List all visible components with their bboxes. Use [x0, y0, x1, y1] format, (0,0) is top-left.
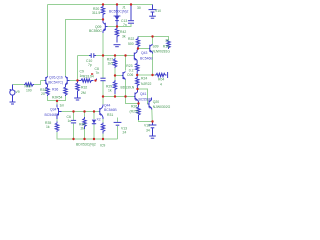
svg-text:R36: R36	[52, 88, 58, 92]
svg-text:1m: 1m	[60, 104, 65, 108]
svg-text:C9: C9	[80, 70, 84, 74]
svg-text:(R25): (R25)	[130, 110, 138, 114]
svg-text:Q44: Q44	[104, 104, 111, 108]
svg-text:NJW0281G: NJW0281G	[153, 50, 171, 54]
svg-text:7p: 7p	[88, 63, 92, 67]
svg-text:R33: R33	[83, 75, 89, 79]
svg-text:R23: R23	[126, 64, 132, 68]
svg-text:Q26,Q16: Q26,Q16	[49, 76, 63, 80]
svg-text:IC9: IC9	[100, 144, 105, 148]
svg-text:R04: R04	[158, 78, 164, 82]
svg-text:94: 94	[90, 75, 94, 79]
svg-text:311.5: 311.5	[92, 11, 100, 15]
svg-text:34: 34	[146, 129, 150, 133]
svg-text:R24: R24	[141, 77, 147, 81]
svg-text:V16: V16	[144, 124, 150, 128]
svg-text:BD139,N: BD139,N	[121, 86, 135, 90]
svg-text:100: 100	[26, 89, 32, 93]
svg-text:BC550C(N)2: BC550C(N)2	[109, 10, 129, 14]
svg-text:2k: 2k	[165, 39, 169, 43]
svg-text:1k: 1k	[108, 89, 112, 93]
svg-text:3k: 3k	[122, 35, 126, 39]
svg-text:BC546B: BC546B	[140, 57, 153, 61]
svg-text:NJR22: NJR22	[141, 82, 151, 86]
svg-text:R32: R32	[81, 86, 87, 90]
svg-text:NJW0302G: NJW0302G	[153, 105, 171, 109]
svg-text:V10: V10	[155, 9, 161, 13]
svg-text:1k: 1k	[46, 125, 50, 129]
svg-text:BC546B: BC546B	[45, 113, 58, 117]
svg-text:Q41: Q41	[140, 92, 147, 96]
svg-text:0.2: 0.2	[129, 69, 134, 73]
svg-text:V9: V9	[16, 90, 20, 94]
svg-text:S09: S09	[153, 45, 159, 49]
svg-text:R26: R26	[131, 105, 137, 109]
svg-text:20: 20	[41, 92, 45, 96]
svg-text:BDX53C(N)2: BDX53C(N)2	[76, 143, 96, 147]
svg-text:1n: 1n	[80, 74, 84, 78]
svg-text:24: 24	[123, 131, 127, 135]
svg-text:7n: 7n	[123, 23, 127, 27]
svg-text:C06: C06	[127, 73, 133, 77]
svg-text:1k5: 1k5	[108, 62, 114, 66]
svg-text:7n: 7n	[96, 71, 100, 75]
svg-text:Q34: Q34	[50, 108, 57, 112]
svg-text:2M: 2M	[81, 91, 86, 95]
svg-text:500: 500	[128, 42, 134, 46]
svg-text:4: 4	[160, 83, 162, 87]
svg-text:R31: R31	[107, 113, 113, 117]
svg-text:1u: 1u	[68, 119, 72, 123]
svg-text:J1: J1	[122, 6, 126, 10]
svg-text:R42: R42	[120, 30, 126, 34]
svg-text:R22: R22	[128, 37, 134, 41]
svg-text:RJR54: RJR54	[52, 96, 62, 100]
svg-text:30: 30	[137, 6, 141, 10]
svg-text:BC546B: BC546B	[104, 108, 117, 112]
svg-text:(BC547C): (BC547C)	[48, 81, 63, 85]
svg-text:Q43: Q43	[141, 51, 148, 55]
svg-text:2k: 2k	[81, 127, 85, 131]
svg-text:R16: R16	[163, 45, 169, 49]
svg-text:Q20: Q20	[153, 100, 160, 104]
svg-text:BC556B: BC556B	[139, 98, 152, 102]
svg-text:BC550C: BC550C	[89, 29, 102, 33]
svg-text:X2: X2	[97, 118, 101, 122]
